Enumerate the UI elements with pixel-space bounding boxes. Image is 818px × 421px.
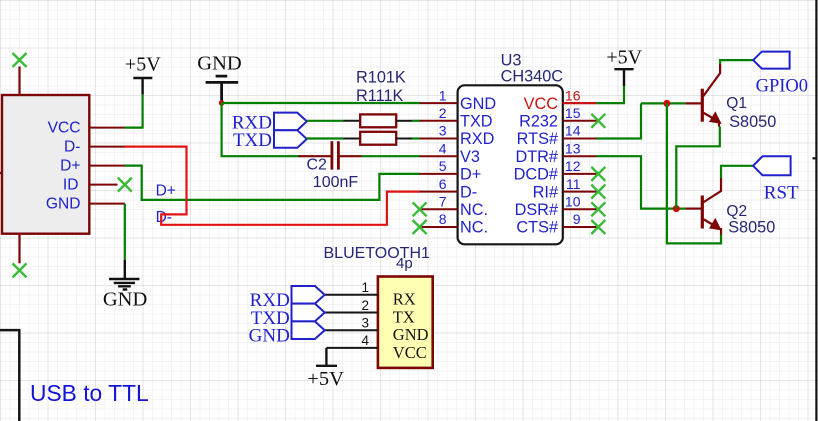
wire C2 to U3 pin4 xyxy=(362,155,420,157)
transistor Q1 base bar xyxy=(701,89,704,122)
svg-text:5: 5 xyxy=(439,158,447,174)
svg-text:4: 4 xyxy=(361,333,369,348)
svg-text:100nF: 100nF xyxy=(313,174,359,191)
svg-text:14: 14 xyxy=(565,123,581,139)
port RXD (left) xyxy=(274,113,307,131)
transistor Q2 collector xyxy=(703,178,721,203)
transistor Q2 base bar xyxy=(701,196,704,229)
BLUETOOTH1 pin1 stub xyxy=(325,294,378,296)
BLUETOOTH1 pin3 stub xyxy=(325,329,378,331)
no-connect X pin12 xyxy=(591,167,605,181)
port TXD (left) xyxy=(274,130,307,148)
svg-text:2: 2 xyxy=(439,105,447,121)
power GND earth: symbol xyxy=(206,76,239,101)
resistor R11 body xyxy=(360,132,396,145)
svg-text:NC.: NC. xyxy=(460,219,488,237)
port TXD (bluetooth) xyxy=(292,304,325,322)
wire Q1 base run xyxy=(641,102,685,104)
svg-text:VCC: VCC xyxy=(48,120,81,137)
wire Q1 collector to GPIO0 xyxy=(720,60,753,64)
svg-text:CTS#: CTS# xyxy=(516,219,558,237)
svg-text:9: 9 xyxy=(573,211,581,227)
svg-text:RTS#: RTS# xyxy=(517,130,558,148)
svg-text:+5V: +5V xyxy=(606,46,642,68)
U3 pin names left xyxy=(460,95,496,237)
resistor R10 right lead xyxy=(396,120,412,122)
wire TXD port to R11 xyxy=(307,137,343,139)
sheet edge pin nub xyxy=(813,157,817,159)
svg-text:3: 3 xyxy=(361,316,369,331)
svg-text:VCC: VCC xyxy=(393,343,427,362)
svg-text:TX: TX xyxy=(393,307,415,326)
port GPIO0 xyxy=(753,52,789,69)
svg-text:13: 13 xyxy=(565,140,581,156)
usb pin ID stub xyxy=(89,184,117,186)
wire Q2 collector to RST xyxy=(721,166,753,178)
svg-text:2: 2 xyxy=(361,298,369,313)
wire VCC pin16 to +5V xyxy=(596,86,624,103)
svg-text:GND: GND xyxy=(393,325,429,344)
svg-text:Q1: Q1 xyxy=(726,95,747,112)
svg-text:1: 1 xyxy=(361,280,369,295)
no-connect X top-left xyxy=(13,53,27,67)
wire pin14 RTS# up xyxy=(597,103,642,138)
BLUETOOTH1 pin numbers xyxy=(361,280,369,348)
svg-text:Q2: Q2 xyxy=(726,203,747,220)
svg-text:NC.: NC. xyxy=(460,201,488,219)
wire usb D- to U3 pin6 (red net) xyxy=(125,147,421,225)
svg-text:RST: RST xyxy=(764,182,799,203)
resistor R10 left lead xyxy=(343,120,360,122)
wire Q1 base node down to Q2 emitter xyxy=(667,103,721,243)
wire +5V to usb VCC xyxy=(125,95,143,128)
svg-text:RI#: RI# xyxy=(533,183,558,201)
svg-text:6: 6 xyxy=(439,176,447,192)
resistor R11 right lead xyxy=(396,138,412,140)
svg-text:8: 8 xyxy=(439,211,447,227)
power GND signal symbol xyxy=(109,260,139,290)
connector BLUETOOTH1 body xyxy=(378,277,433,368)
IC U3 body xyxy=(458,85,563,244)
svg-text:+5V: +5V xyxy=(125,53,161,75)
junction dot Q2 base node xyxy=(673,205,680,212)
svg-text:RXD: RXD xyxy=(460,130,494,148)
svg-text:BLUETOOTH1: BLUETOOTH1 xyxy=(324,245,431,262)
wire RXD port to R10 xyxy=(307,120,343,122)
U3 pin names right xyxy=(514,113,558,237)
svg-text:D+: D+ xyxy=(60,158,80,175)
capacitor C2 left lead xyxy=(299,155,332,157)
usb connector body xyxy=(2,95,89,234)
svg-text:7: 7 xyxy=(439,194,447,210)
svg-text:GND: GND xyxy=(249,326,290,347)
port RST xyxy=(753,156,791,175)
BLUETOOTH1 pin2 stub xyxy=(325,312,378,314)
svg-text:4p: 4p xyxy=(396,255,413,272)
svg-text:CH340C: CH340C xyxy=(501,67,564,85)
wire R10 to U3 pin2 xyxy=(412,120,420,122)
svg-text:USB to TTL: USB to TTL xyxy=(30,380,149,406)
no-connect X pin9 xyxy=(591,220,605,234)
BLUETOOTH1 pin names xyxy=(393,290,429,362)
no-connect X pin11 xyxy=(591,185,605,199)
svg-text:GND: GND xyxy=(197,53,241,75)
svg-text:15: 15 xyxy=(565,105,581,121)
wire R11 to U3 pin3 xyxy=(412,137,420,139)
transistor Q1 emitter arrow xyxy=(710,112,721,123)
no-connect X pin7 xyxy=(413,202,427,216)
svg-text:D+: D+ xyxy=(156,183,176,200)
svg-text:RX: RX xyxy=(393,290,416,309)
resistor R11 left lead xyxy=(343,138,360,140)
svg-text:TXD: TXD xyxy=(233,130,272,151)
svg-text:DTR#: DTR# xyxy=(515,148,558,166)
usb pin GND stub xyxy=(89,203,125,205)
usb pin VCC stub xyxy=(89,127,124,129)
svg-text:ID: ID xyxy=(63,177,79,194)
transistor Q2 emitter xyxy=(703,219,716,227)
U3 left pin stubs 7-8 (NC) xyxy=(420,209,458,227)
svg-text:D-: D- xyxy=(460,183,477,201)
U3 right pin stub 16 (red VCC) xyxy=(563,102,597,104)
wire GND net down to C2 xyxy=(222,103,300,156)
svg-text:S8050: S8050 xyxy=(729,113,776,131)
usb left edge pin nub xyxy=(0,172,3,174)
svg-text:3: 3 xyxy=(439,123,447,139)
U3 left pin stubs 1-6 xyxy=(420,103,458,192)
usb top pin wire xyxy=(18,67,20,96)
transistor Q1 emitter xyxy=(703,113,716,121)
no-connect X on ID pin xyxy=(118,178,132,192)
transistor Q2 emitter arrow xyxy=(710,219,721,230)
svg-text:DCD#: DCD# xyxy=(514,166,558,184)
usb bottom pin wire xyxy=(18,234,20,264)
svg-text:R111K: R111K xyxy=(356,87,404,105)
port GND (bluetooth) xyxy=(292,321,325,339)
transistor Q1 collector xyxy=(703,64,720,97)
pin numbers left 1-8 xyxy=(439,87,447,227)
capacitor C2 plates xyxy=(332,141,339,169)
usb pin D+ stub xyxy=(89,165,124,167)
pin numbers right 15-9 xyxy=(565,105,581,227)
svg-text:DSR#: DSR# xyxy=(515,201,558,219)
port RXD (bluetooth) xyxy=(292,286,325,304)
wire pin13 DTR# down xyxy=(597,156,686,208)
BLUETOOTH1 pin4 stub xyxy=(326,347,378,349)
svg-text:GND: GND xyxy=(103,289,147,311)
sheet edge line right xyxy=(815,0,817,421)
svg-text:GND: GND xyxy=(46,196,81,213)
svg-text:12: 12 xyxy=(565,158,581,174)
svg-text:+5V: +5V xyxy=(307,368,344,390)
capacitor C2 right lead xyxy=(338,155,362,157)
no-connect X pin8 xyxy=(413,220,427,234)
wire GND net horizontal to U3 pin1 xyxy=(222,102,420,104)
transistor Q2 base pin xyxy=(686,208,702,210)
sheet symbol corner bottom-left xyxy=(0,330,19,421)
transistor Q2 emitter leg xyxy=(720,228,722,235)
transistor Q1 base pin xyxy=(685,102,701,104)
svg-text:R232: R232 xyxy=(519,113,558,131)
svg-text:D-: D- xyxy=(64,139,80,156)
svg-text:GPIO0: GPIO0 xyxy=(756,76,808,96)
svg-text:S8050: S8050 xyxy=(728,219,775,237)
svg-text:4: 4 xyxy=(439,140,447,156)
svg-text:10: 10 xyxy=(565,194,581,210)
power +5V left: bar symbol xyxy=(133,78,152,95)
U3 right pin stubs 15-9 xyxy=(563,121,597,227)
svg-text:V3: V3 xyxy=(460,148,480,166)
svg-text:D+: D+ xyxy=(460,166,481,184)
usb GND wire down xyxy=(124,204,126,260)
svg-text:GND: GND xyxy=(460,95,496,113)
svg-text:11: 11 xyxy=(566,176,581,192)
transistor Q1 emitter leg xyxy=(718,122,720,127)
svg-text:1: 1 xyxy=(439,87,447,103)
no-connect X below usb xyxy=(13,263,27,277)
svg-text:TXD: TXD xyxy=(460,113,493,131)
resistor R10 body xyxy=(360,114,396,127)
svg-text:D-: D- xyxy=(156,209,172,226)
svg-text:16: 16 xyxy=(565,87,581,103)
svg-text:VCC: VCC xyxy=(524,95,559,113)
svg-text:R101K: R101K xyxy=(356,68,406,86)
no-connect X pin10 xyxy=(591,202,605,216)
power +5V right: bar symbol xyxy=(614,69,633,86)
junction dot Q1 base node xyxy=(663,100,670,107)
wire Q1 emitter down to Q2 base node xyxy=(676,127,720,209)
usb pin D- stub xyxy=(89,146,124,148)
power +5V bottom: stem xyxy=(316,348,337,366)
svg-text:C2: C2 xyxy=(307,157,328,174)
junction dot at GND xyxy=(219,100,225,106)
wire usb D+ to U3 pin5 xyxy=(125,166,421,200)
no-connect X pin15 xyxy=(591,114,605,128)
